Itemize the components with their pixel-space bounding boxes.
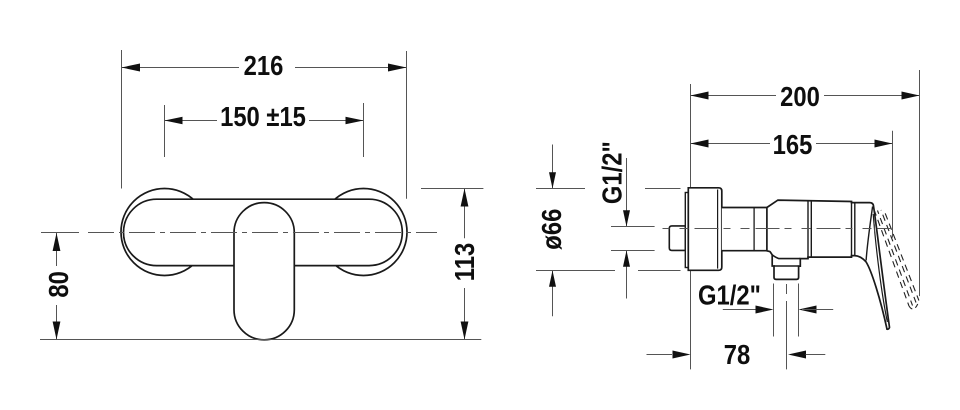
dim 216 line right segment xyxy=(295,67,407,69)
dim 165 arrowhead left xyxy=(691,140,709,148)
body joint line 1a xyxy=(807,201,809,259)
dim 150 arrowhead left xyxy=(165,117,183,125)
neck bottom line xyxy=(722,250,767,252)
outlet centerline segment 2 xyxy=(786,301,788,369)
svg-text:G1/2": G1/2" xyxy=(596,141,628,204)
lever dashed position line 3 xyxy=(881,210,916,303)
dim G1/2 vertical bottom arrowhead xyxy=(623,251,630,267)
body bottom chamfer curve over outlet xyxy=(772,255,800,259)
horizontal centerline side view xyxy=(663,228,892,230)
horizontal centerline front view xyxy=(88,232,437,234)
wall reference line upper part xyxy=(690,84,692,188)
dim 80 arrowhead up xyxy=(53,233,61,251)
dim 216 line left segment xyxy=(122,67,240,69)
dim 216 extension line right xyxy=(406,51,408,199)
escutcheon disc side xyxy=(688,188,722,270)
dim 150 extension line left xyxy=(164,105,166,157)
dim G1/2 vertical bottom arrow line xyxy=(626,251,628,299)
lever inner contour line xyxy=(873,214,887,322)
lever pivot tick xyxy=(874,225,876,233)
dim G1/2 vertical top extension line xyxy=(611,226,655,228)
svg-text:113: 113 xyxy=(448,243,480,281)
outlet centerline segment 1 xyxy=(786,284,788,294)
dim 165 line right segment xyxy=(816,143,893,145)
dim 113 top extension line xyxy=(421,188,483,190)
dim diameter66 bottom extension line seg1 xyxy=(536,270,615,272)
svg-text:78: 78 xyxy=(724,338,750,370)
dim 200 arrowhead left xyxy=(691,92,709,100)
dim G1/2 horizontal right arrow line xyxy=(802,309,833,311)
lever dashed position line 4 xyxy=(885,212,919,301)
dim 113 line upper segment xyxy=(464,189,466,239)
dim 150 extension line right xyxy=(363,103,365,157)
dim 200 right extension line xyxy=(919,70,921,296)
neck cylinder fill xyxy=(722,208,767,251)
dim 200 arrowhead right xyxy=(902,92,920,100)
dim 165 right extension line xyxy=(892,131,894,238)
escutcheon disc rim line xyxy=(717,190,719,269)
svg-text:216: 216 xyxy=(244,49,284,81)
dim diameter66 bottom arrowhead xyxy=(549,271,556,287)
dim 113 arrowhead down xyxy=(461,322,469,340)
dim 80 arrowhead down xyxy=(53,322,61,340)
dim 80 extension segment at centerline xyxy=(41,232,79,234)
dim 200 line right segment xyxy=(824,95,920,97)
dim 78 left arrowhead xyxy=(673,351,691,359)
outlet step line xyxy=(774,265,799,267)
svg-text:80: 80 xyxy=(42,271,74,297)
svg-text:G1/2": G1/2" xyxy=(698,279,761,311)
svg-text:200: 200 xyxy=(780,80,820,112)
dim 78 right arrow line xyxy=(806,354,826,356)
lever dashed position line 1 xyxy=(874,210,909,307)
body joint line 2b xyxy=(854,202,856,255)
dim 150 line left segment xyxy=(165,120,218,122)
dim diameter66 top arrow line xyxy=(552,145,554,189)
escutcheon circle right xyxy=(320,189,407,276)
dim G1/2 vertical top arrowhead xyxy=(623,210,630,226)
dim 165 arrowhead right xyxy=(875,140,893,148)
dim diameter66 top extension line seg1 xyxy=(536,188,585,190)
outlet extension line left xyxy=(773,284,775,337)
body joint line 2a xyxy=(851,202,853,258)
svg-text:165: 165 xyxy=(773,128,813,160)
dim G1/2 vertical top arrow line xyxy=(626,158,628,227)
dim G1/2 vertical bottom extension line xyxy=(611,250,655,252)
dim 113 arrowhead up xyxy=(461,189,469,207)
main body with lever and outlet xyxy=(767,200,890,329)
lever dashed tip arc xyxy=(909,303,918,310)
dim 80 line lower segment xyxy=(56,305,58,340)
dim 113 line lower segment xyxy=(464,288,466,340)
dim G1/2 horizontal left arrow line xyxy=(723,309,769,311)
dim diameter66 top arrowhead xyxy=(549,172,556,188)
dim 216 arrowhead left xyxy=(122,64,141,72)
svg-text:ø66: ø66 xyxy=(535,209,567,250)
lever handle front xyxy=(234,203,294,340)
neck top line xyxy=(722,207,767,209)
dim diameter66 bottom arrow line xyxy=(552,271,554,317)
body joint line 1b xyxy=(810,201,812,258)
dim 216 extension line left xyxy=(121,50,123,189)
ground/base reference line xyxy=(40,339,481,341)
dim 78 left arrow line xyxy=(647,354,673,356)
inlet stub G1/2 xyxy=(669,226,685,251)
dim 216 arrowhead right xyxy=(388,64,407,72)
escutcheon circle left xyxy=(121,189,208,276)
dim 165 line left segment xyxy=(691,143,771,145)
dim G1/2 horizontal left arrowhead xyxy=(756,306,774,314)
escutcheon back plate xyxy=(685,193,688,268)
wall reference line lower part xyxy=(690,270,692,369)
dim 150 arrowhead right xyxy=(346,117,364,125)
dim diameter66 bottom extension line seg2 xyxy=(638,270,681,272)
neck joint line xyxy=(753,208,755,251)
svg-text:150 ±15: 150 ±15 xyxy=(220,100,306,132)
dim 150 line right segment xyxy=(309,120,364,122)
lever dashed position line 2 xyxy=(878,211,913,306)
outlet extension line right xyxy=(798,284,800,337)
dim 200 line left segment xyxy=(691,95,777,97)
dim 80 line upper segment xyxy=(56,233,58,266)
dim 78 right arrowhead xyxy=(788,351,806,359)
dim diameter66 top extension line seg2 xyxy=(645,188,681,190)
dim G1/2 horizontal right arrowhead xyxy=(799,306,817,314)
mixer body pill xyxy=(124,199,403,265)
lever back edge line xyxy=(866,207,873,261)
